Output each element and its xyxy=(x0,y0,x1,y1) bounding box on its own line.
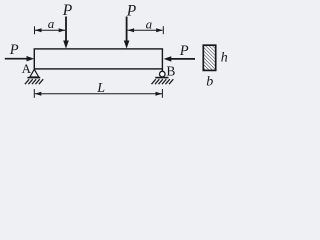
dimension a (left): line with arrowheads xyxy=(35,28,65,32)
beam AB xyxy=(34,49,162,69)
dimension L: right tick xyxy=(161,89,163,98)
support B: roller circle xyxy=(155,69,168,78)
svg-text:b: b xyxy=(206,75,213,90)
svg-text:L: L xyxy=(96,81,105,96)
svg-text:A: A xyxy=(22,61,32,76)
dimension L: left tick xyxy=(33,89,35,98)
svg-text:P: P xyxy=(9,42,19,58)
svg-text:a: a xyxy=(146,16,153,31)
force P left (down arrow) xyxy=(63,17,69,49)
support B: ground hatching xyxy=(152,79,174,84)
svg-text:B: B xyxy=(166,63,175,78)
support A: pin triangle xyxy=(27,69,40,77)
svg-text:a: a xyxy=(48,16,55,31)
support A: ground hatching xyxy=(25,79,43,84)
dimension a (right): line with arrowheads xyxy=(128,28,163,32)
svg-text:P: P xyxy=(126,3,137,20)
axial force P at A (right-pointing arrow) xyxy=(5,56,34,61)
svg-text:P: P xyxy=(62,2,73,19)
svg-text:P: P xyxy=(179,43,189,59)
cross-section rectangle (hatched) xyxy=(203,45,215,70)
svg-text:h: h xyxy=(221,51,228,66)
dimension a (right): tick xyxy=(162,26,164,34)
dimension L: line with arrowheads xyxy=(35,92,162,96)
axial force P at B (left-pointing arrow) xyxy=(164,56,195,61)
dimension a (left): tick xyxy=(34,26,36,34)
force P right (down arrow) xyxy=(124,17,130,49)
